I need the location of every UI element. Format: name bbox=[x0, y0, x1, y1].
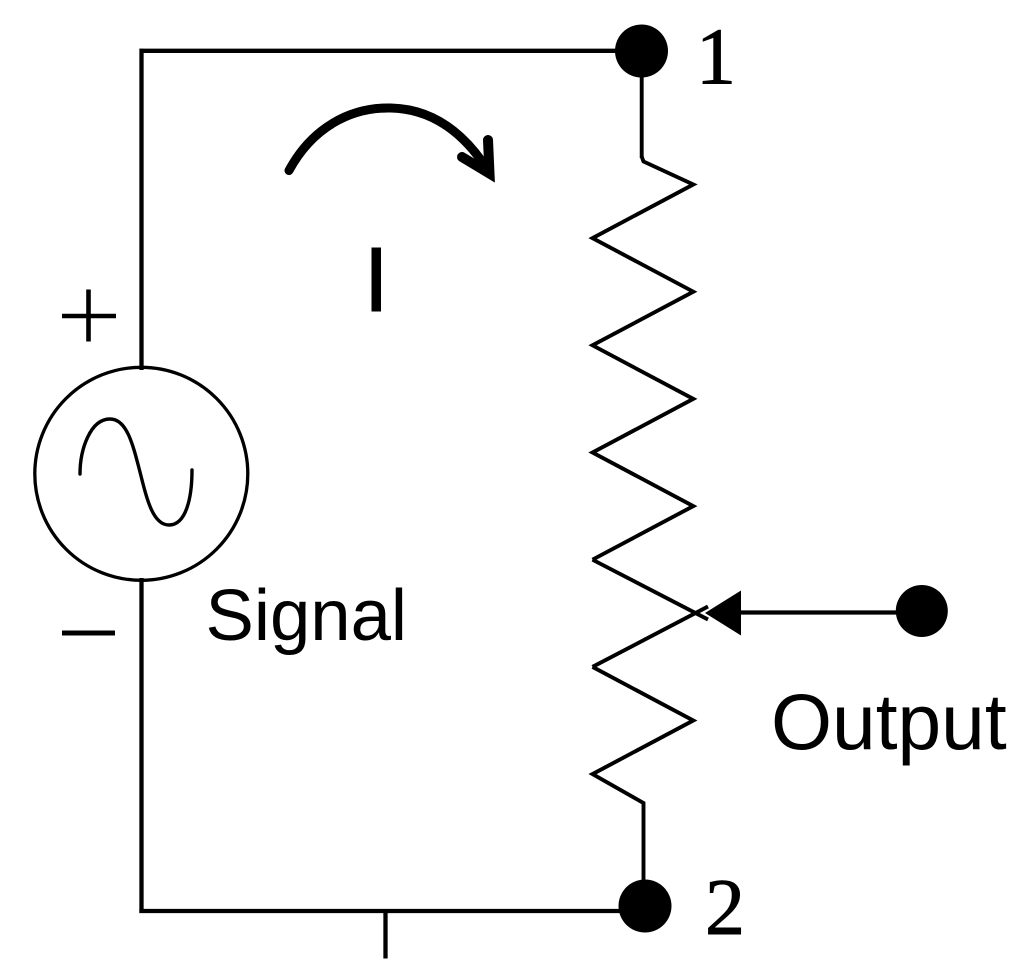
potentiometer wiper-point crossing segment B bbox=[593, 607, 709, 667]
potentiometer R1 upper zigzag body bbox=[593, 157, 694, 560]
current arrow head bbox=[462, 140, 490, 174]
potentiometer wiper-point crossing segment A bbox=[593, 560, 709, 620]
wire bottom stub bbox=[383, 911, 387, 959]
wire bottom horizontal to node 2 bbox=[139, 909, 648, 913]
output terminal dot bbox=[896, 585, 948, 637]
wire from node 1 down to resistor bbox=[640, 51, 644, 158]
node 1 junction dot bbox=[615, 25, 668, 78]
svg-text:Signal: Signal bbox=[206, 575, 408, 656]
plus polarity mark bbox=[62, 290, 116, 342]
svg-text:2: 2 bbox=[705, 864, 745, 952]
svg-text:Output: Output bbox=[771, 678, 1007, 766]
wire wiper to output node bbox=[739, 610, 900, 614]
current label I bbox=[372, 248, 382, 312]
potentiometer R1 lower zigzag body bbox=[593, 667, 694, 881]
voltage source V1 (signal source circle) bbox=[35, 367, 248, 580]
svg-text:1: 1 bbox=[696, 14, 736, 102]
minus polarity mark bbox=[62, 631, 115, 636]
wiper arrow head bbox=[705, 591, 741, 636]
current direction curved arrow bbox=[289, 108, 482, 171]
wire top horizontal from source to node 1 bbox=[140, 49, 642, 53]
wire left vertical lower (source - to bottom) bbox=[139, 578, 143, 913]
node 2 junction dot bbox=[619, 880, 672, 933]
wire left vertical upper (source + to top) bbox=[139, 49, 143, 370]
sine wave symbol inside source bbox=[80, 419, 192, 525]
